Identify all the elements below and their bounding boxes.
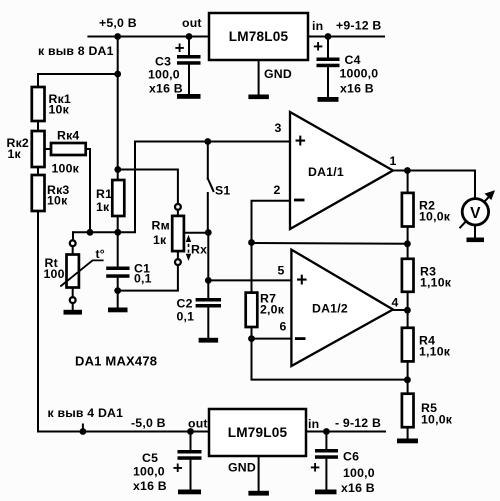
regulator U LM79L05 [209,409,306,456]
wire down to R2 [407,171,409,193]
svg-text:100,0: 100,0 [133,465,165,479]
node S1 top on pin3 wire [204,138,211,145]
node output 4 [404,307,411,314]
node +5V junction to divider [114,33,121,40]
wire R1 bottom [117,216,119,232]
op-amp DA1/2 [291,250,393,366]
svg-text:DA1/2: DA1/2 [312,302,348,316]
svg-text:GND: GND [228,461,256,475]
svg-text:Rx: Rx [191,243,207,257]
wire pin 5 [208,279,291,281]
wire Rk2 tap to Rk4 [45,148,52,150]
svg-text:1к: 1к [8,147,22,161]
svg-text:0,1: 0,1 [134,272,152,286]
wire feedback rail 1 [252,242,408,245]
svg-text:+5,0 В: +5,0 В [99,16,137,30]
svg-text:100,0: 100,0 [343,466,375,480]
node C4 junction [325,33,332,40]
svg-text:1,10к: 1,10к [419,345,451,359]
wire Rk4 right down [86,149,90,232]
svg-text:x16 В: x16 В [149,82,183,96]
svg-text:к выв 4 DA1: к выв 4 DA1 [48,406,124,420]
wire S1 node down to C2/pin5 [207,233,209,299]
capacitor C6 [325,432,327,450]
resistor R7 [246,293,258,327]
svg-text:1000,0: 1000,0 [340,67,379,81]
svg-text:5: 5 [278,264,285,278]
svg-text:Rм: Rм [152,219,170,233]
wire Rm wiper tap to S1 bottom [184,232,208,234]
resistor R4 [402,328,414,362]
wire GND pin LM79L05 [258,456,260,491]
wire R5 bottom [407,427,409,438]
svg-text:0,1: 0,1 [177,310,195,324]
wire Rk1-Rk2 [37,121,39,131]
node C3 junction [186,33,193,40]
capacitor C4 [327,37,329,58]
svg-text:- 9-12 В: - 9-12 В [335,416,381,430]
svg-text:V: V [470,205,481,222]
svg-text:+: + [173,459,183,478]
thermistor Rt top wire [72,232,74,240]
svg-text:t°: t° [96,247,105,261]
resistor R3 [402,259,414,292]
resistor Rk4 [51,143,86,155]
svg-text:1,10к: 1,10к [420,276,452,290]
svg-text:-5,0 В: -5,0 В [131,416,166,430]
svg-text:S1: S1 [215,184,230,198]
ground C6 [315,490,337,495]
svg-text:C2: C2 [177,297,193,311]
node R1 bottom [114,229,121,236]
ground C3 [177,94,201,99]
svg-text:LM79L05: LM79L05 [228,425,288,440]
node C1 bottom [114,287,121,294]
node C6 junction [323,428,330,435]
wire to Rm [177,210,179,216]
capacitor C5 [190,432,192,451]
node feedback 2 [404,376,411,383]
resistor Rk2 [32,131,45,167]
resistor R1 [112,180,124,216]
wire R7 top lead [251,243,253,293]
wire tap to Rk1 [38,74,118,87]
measure arrow Rx [188,238,190,258]
wire DA1/2 output [393,309,407,311]
resistor R5 [402,394,414,428]
wire +5 tap down to R1 [117,74,119,180]
svg-text:DA1/1: DA1/1 [308,165,344,179]
resistor R2 [402,193,414,227]
svg-text:2,0к: 2,0к [260,303,285,317]
resistor Rm [172,216,184,251]
svg-text:100: 100 [44,267,65,281]
resistor Rk1 [32,87,45,121]
svg-text:C3: C3 [155,55,171,69]
capacitor C1 [117,232,119,266]
svg-text:in: in [308,417,319,431]
svg-text:4: 4 [392,296,399,310]
svg-text:10к: 10к [49,103,70,117]
node pin2/R7/feedback [248,239,255,246]
ground C2 [199,338,219,343]
svg-text:+: + [296,270,307,291]
wire Rm bottom [177,251,179,259]
terminal Rt bottom [70,297,76,303]
ground LM79L05 [248,491,269,496]
svg-text:100,0: 100,0 [148,68,180,82]
svg-text:LM78L05: LM78L05 [229,29,289,44]
ground voltmeter [467,238,485,243]
node Rk4 bottom [87,229,94,236]
svg-text:2: 2 [274,183,281,197]
svg-text:10,0к: 10,0к [421,413,453,427]
terminal Rm bottom [175,259,181,265]
node S1 bottom [205,229,212,236]
svg-text:C5: C5 [142,451,158,465]
ground C4 [318,97,339,102]
regulator U LM78L05 [209,13,308,60]
switch S1 [207,142,209,179]
wire to voltmeter [474,171,476,198]
svg-text:x16 В: x16 В [340,82,374,96]
svg-text:3: 3 [275,121,282,135]
wire +5V rail left [88,36,209,38]
wire R4-R5 [407,361,409,393]
ground R5 [397,439,418,444]
svg-text:+: + [175,38,185,57]
svg-text:R1: R1 [96,187,112,201]
wire feedback rail 2 [252,339,408,380]
svg-text:out: out [182,16,202,30]
svg-text:1к: 1к [153,233,167,247]
svg-text:in: in [312,19,323,33]
node C5 junction [187,428,194,435]
svg-text:к выв 8 DA1: к выв 8 DA1 [38,44,114,58]
wire Rk3 down to -5V rail [37,211,39,432]
terminal Rt top [70,240,76,246]
wire DA1/1 output [393,170,475,172]
capacitor C2 [196,298,221,302]
wire branch to Rm top [118,170,178,205]
resistor Rk3 [32,175,45,211]
wire -9-12 rail [306,431,385,433]
wire R7 bottom lead [251,327,253,339]
svg-text:+: + [295,131,306,152]
node R7 bottom / pin6 [248,335,255,342]
svg-text:100к: 100к [52,162,80,176]
ground C1 [108,308,128,313]
wire -5V rail [38,431,209,433]
svg-text:6: 6 [280,320,287,334]
svg-text:x16 В: x16 В [341,481,375,495]
node feedback 1 [404,240,411,247]
capacitor C3 [188,37,190,56]
wire pin 6 [252,338,292,340]
ground Rt [64,310,83,315]
svg-text:Rк4: Rк4 [57,129,79,143]
svg-text:10,0к: 10,0к [419,210,451,224]
node pin4 tick [82,425,84,432]
wire +5V rail right [308,36,384,38]
svg-text:1к: 1к [96,200,110,214]
thermistor diagonal [60,260,103,286]
wire GND pin LM78L05 [258,60,260,95]
svg-text:1: 1 [390,154,397,168]
svg-text:+9-12 В: +9-12 В [336,19,382,33]
ground C5 [178,490,201,495]
terminal Rm top [175,204,181,210]
wire R3-R4 [407,292,409,328]
svg-text:C6: C6 [343,450,359,464]
ground LM78L05 [248,95,269,100]
thermistor Rt [67,255,79,288]
node output 1 [404,167,411,174]
svg-text:+: + [313,37,323,56]
svg-text:GND: GND [264,67,292,81]
wire Rt bottom [72,288,74,298]
wire R2-R3 [407,227,409,259]
svg-text:+: + [310,458,320,477]
svg-text:DA1 MAX478: DA1 MAX478 [75,353,157,368]
op-amp DA1/1 [290,112,393,229]
svg-text:x16 В: x16 В [133,479,167,493]
wire Rm bottom to C1 ground node [118,265,178,291]
wire pin 2 [252,201,291,243]
voltmeter PV1 [460,196,490,228]
node pin5 branch [205,277,212,284]
wire Rk2-Rk3 [37,167,39,175]
wire voltmeter ground [474,225,476,238]
node R1 top branch [114,166,121,173]
wire down to divider tap [117,37,119,75]
svg-text:C4: C4 [345,53,361,67]
wire mid rail y232 [73,142,290,244]
svg-text:10к: 10к [47,194,68,208]
node divider tap [114,71,121,78]
